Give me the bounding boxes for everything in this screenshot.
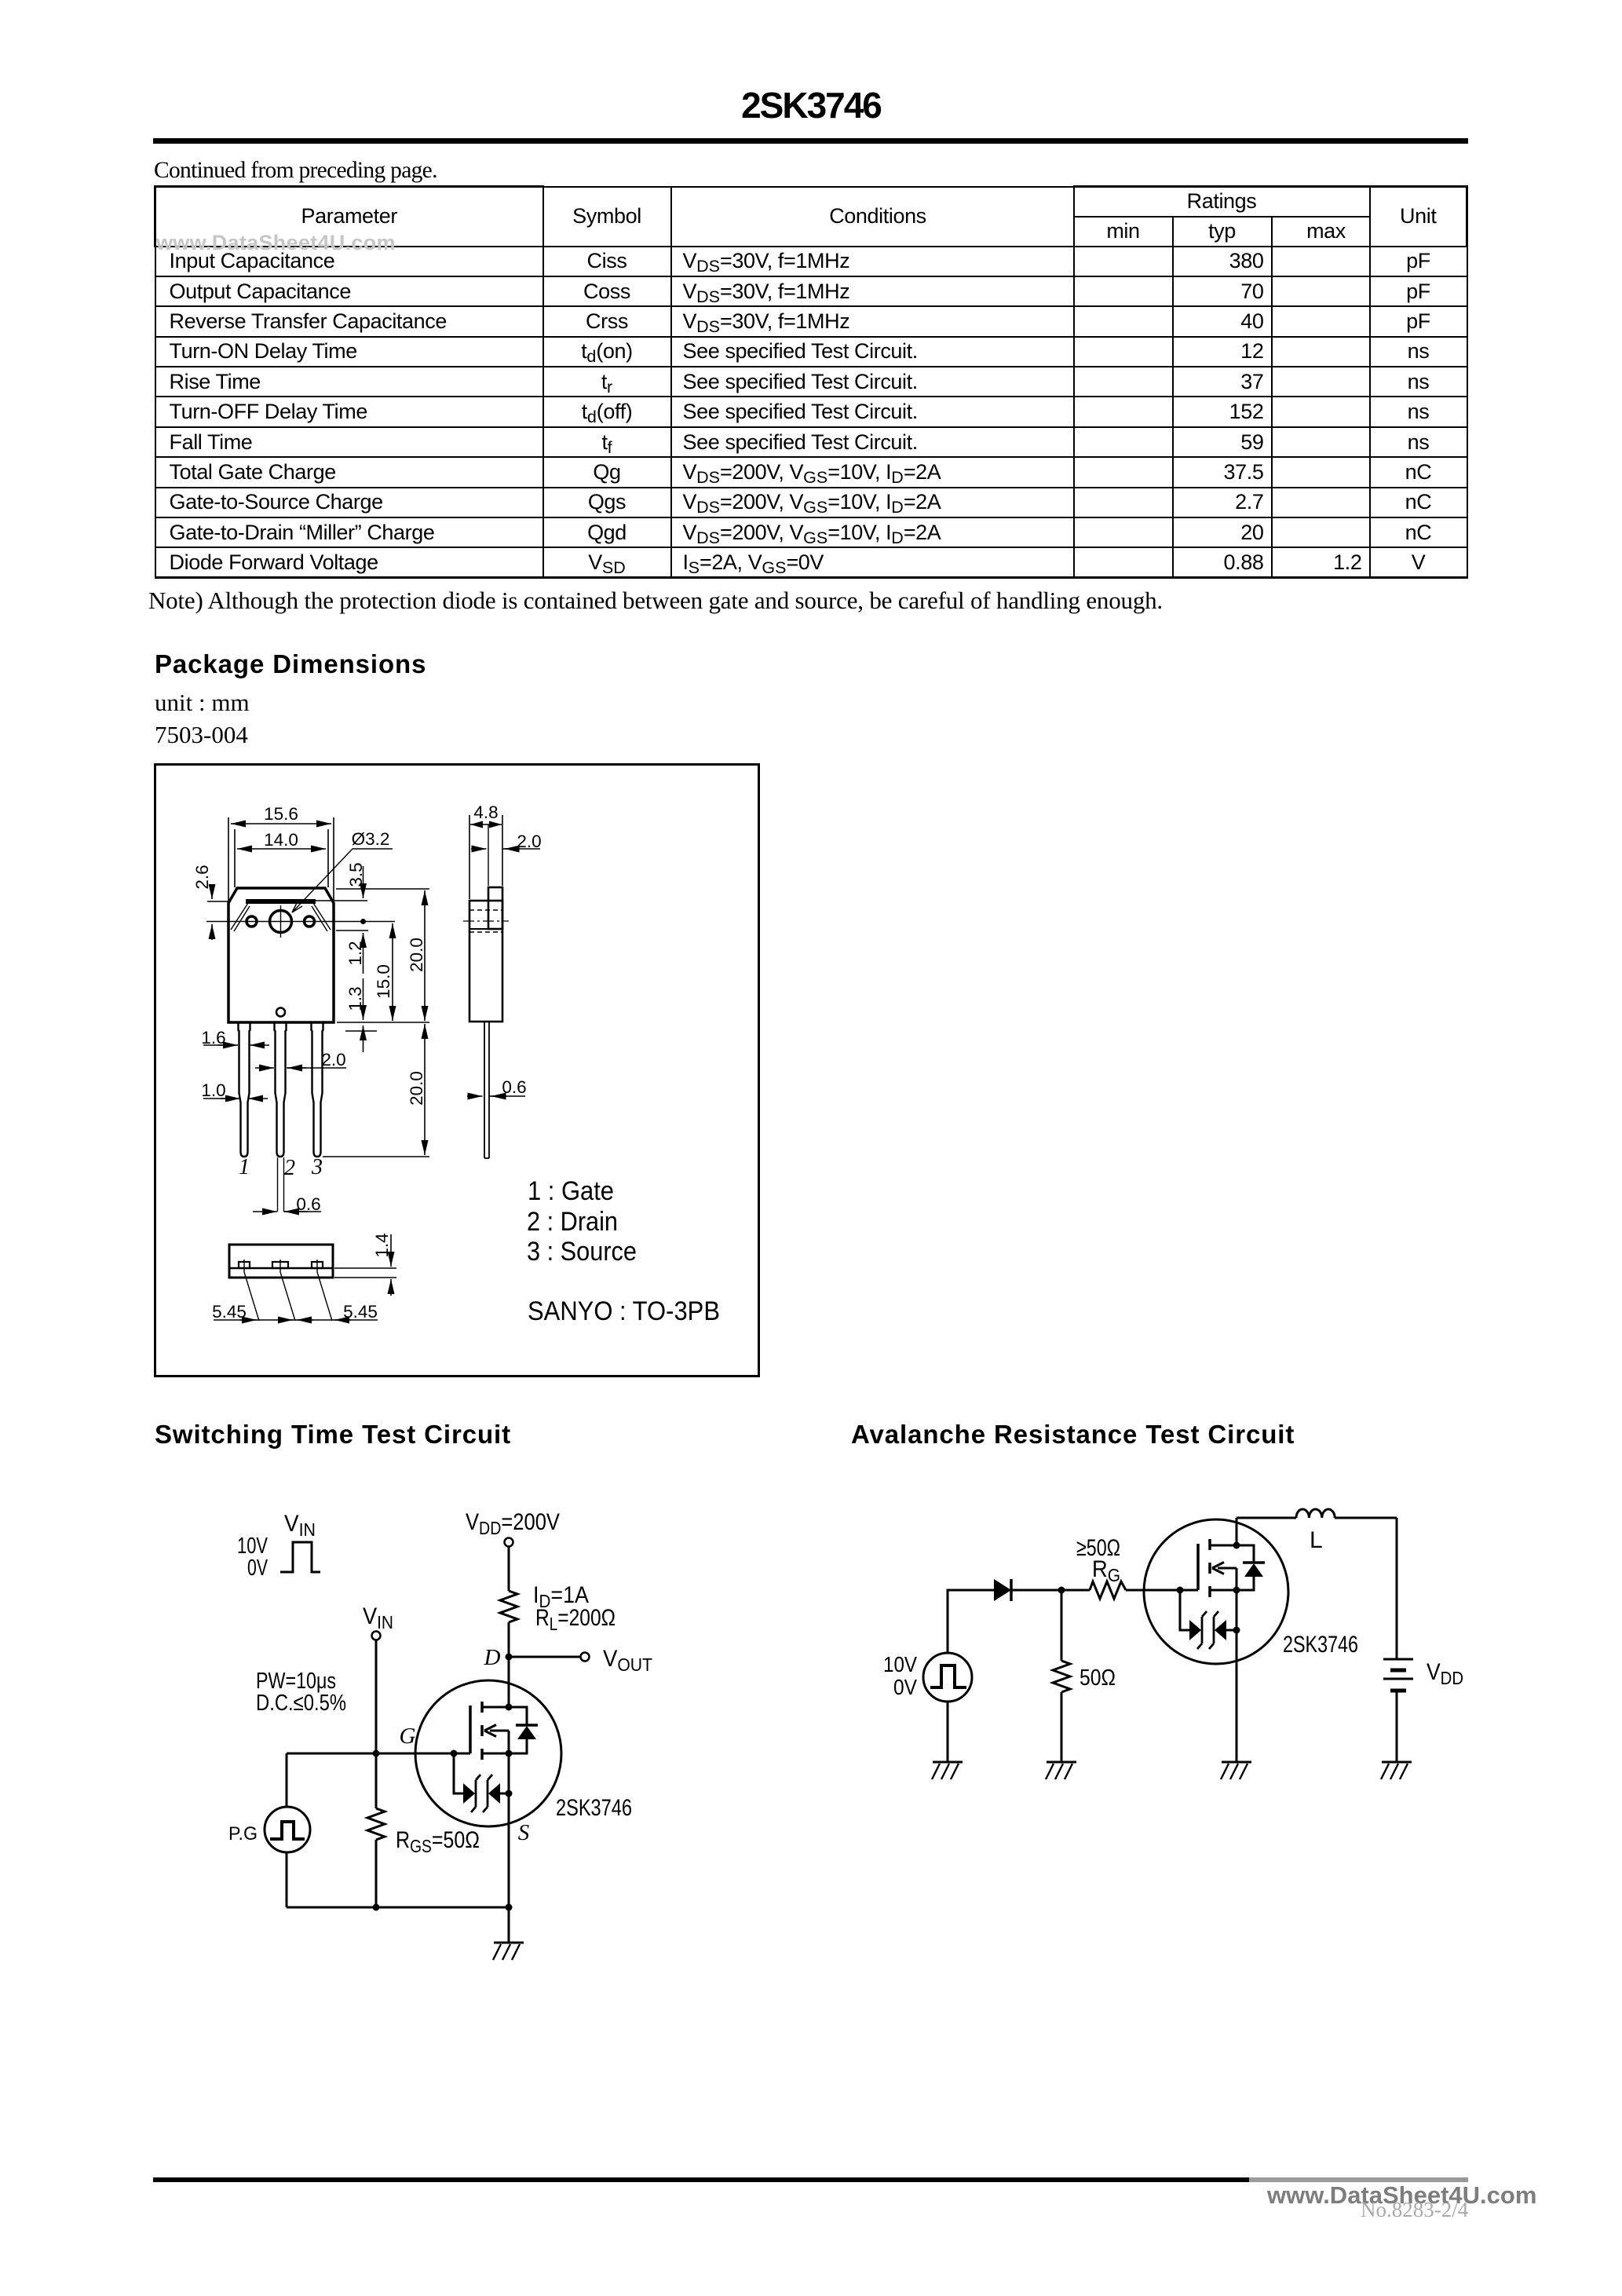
body diode: [509, 1707, 527, 1753]
source wire to ground: [1236, 1590, 1238, 1762]
top rail with inductor: [1237, 1517, 1296, 1519]
bottom view pin 3: [312, 1262, 323, 1268]
svg-text:VIN: VIN: [284, 1511, 316, 1540]
source stub: [482, 1753, 509, 1755]
pin end extension: [323, 1156, 429, 1157]
watermark top: [156, 231, 396, 255]
svg-text:1.4: 1.4: [372, 1233, 392, 1257]
TO-3PB front view body: [228, 888, 334, 1022]
svg-text:4.8: 4.8: [473, 803, 498, 822]
svg-text:2.0: 2.0: [517, 832, 541, 851]
dim 2.0 side: [488, 824, 489, 886]
title: [0, 84, 1622, 126]
bevel hatch left: [231, 903, 250, 931]
mounting hole: [270, 911, 292, 933]
wire source to diode: [948, 1590, 994, 1653]
drain stub: [482, 1706, 509, 1709]
body diode: [1237, 1545, 1254, 1590]
terminal VOUT: [581, 1653, 590, 1662]
resistor RL: [500, 1591, 517, 1622]
left branch wires: [286, 1753, 288, 1907]
svg-text:VDD=200V: VDD=200V: [466, 1509, 560, 1538]
svg-text:2.6: 2.6: [192, 865, 212, 889]
gate wire: [287, 1753, 470, 1755]
svg-text:VIN: VIN: [363, 1603, 393, 1632]
channel bar dashes: [480, 1702, 484, 1760]
svg-text:3.5: 3.5: [346, 862, 366, 887]
small hole right: [305, 916, 315, 927]
svg-text:2SK3746: 2SK3746: [1283, 1632, 1358, 1658]
dim 1.4: [334, 1268, 396, 1278]
svg-text:RGS=50Ω: RGS=50Ω: [396, 1827, 480, 1856]
svg-text:RL=200Ω: RL=200Ω: [535, 1605, 616, 1634]
body stub with arrow: [490, 1730, 509, 1732]
series diode: [994, 1579, 1011, 1601]
dim 2.6 arrows: [207, 901, 229, 902]
battery VDD: [1383, 1659, 1413, 1691]
VIN terminal: [372, 1632, 381, 1640]
pulse glyph: [930, 1665, 966, 1687]
svg-text:2: 2: [284, 1156, 295, 1180]
centerline through hole: [206, 921, 395, 923]
side pin: [484, 1022, 489, 1158]
package drawing: [0, 0, 1622, 1413]
small hole left: [247, 916, 257, 927]
resistor RG: [1090, 1581, 1126, 1599]
input pulse waveform: [280, 1542, 320, 1572]
svg-text:0V: 0V: [247, 1556, 268, 1581]
svg-text:20.0: 20.0: [407, 938, 426, 972]
dim 1.3: [363, 978, 364, 1020]
svg-text:0.6: 0.6: [502, 1077, 526, 1097]
dim 1.0 arrows: [203, 1098, 236, 1099]
svg-text:50Ω: 50Ω: [1080, 1665, 1116, 1691]
svg-text:S: S: [518, 1820, 530, 1845]
dim 14.0: [235, 829, 328, 887]
svg-text:3 : Source: 3 : Source: [527, 1237, 637, 1267]
leader line for hole dia: [292, 849, 393, 912]
node D: [506, 1654, 513, 1661]
svg-text:10V: 10V: [883, 1652, 917, 1676]
ground stem: [508, 1907, 510, 1943]
50 ohm branch: [1061, 1590, 1063, 1661]
svg-text:20.0: 20.0: [407, 1071, 426, 1106]
side dashed lines: [469, 910, 502, 932]
ground 4: [1381, 1762, 1412, 1779]
transistor circle: [1144, 1519, 1288, 1664]
pin 1: [239, 1022, 250, 1157]
pin shoulder tick: [345, 1030, 377, 1032]
wire RG to gate: [1126, 1589, 1198, 1592]
body bottom extension: [337, 1022, 429, 1023]
body stub: [1218, 1567, 1237, 1570]
dim 0.6 arrows front: [284, 1211, 322, 1212]
dim 3.5: [315, 900, 367, 901]
gate electrode: [1196, 1544, 1200, 1590]
bottom view pin 2: [272, 1262, 288, 1268]
svg-text:D: D: [484, 1645, 501, 1670]
package dimensions outer box: [155, 765, 759, 1377]
pin 2: [275, 1022, 287, 1157]
dim 4.8: [469, 815, 502, 899]
svg-text:SANYO : TO-3PB: SANYO : TO-3PB: [528, 1296, 720, 1326]
dim 15.6: [228, 817, 334, 902]
channel dashes: [1208, 1539, 1211, 1597]
protection diodes: [1180, 1590, 1189, 1630]
dim 20.0 lower: [424, 1024, 426, 1155]
ground 3: [1221, 1762, 1251, 1779]
svg-text:1.6: 1.6: [201, 1028, 225, 1047]
transistor 2SK3746 circle: [415, 1680, 561, 1826]
svg-text:5.45: 5.45: [343, 1302, 378, 1322]
footer number: [1361, 2198, 1468, 2222]
node dot on centerline: [360, 919, 366, 924]
svg-text:VDD: VDD: [1427, 1659, 1463, 1688]
top rule: [153, 138, 1468, 144]
svg-text:P.G: P.G: [228, 1823, 258, 1844]
side centerline: [463, 920, 509, 922]
dim 5.45 line: [214, 1319, 378, 1321]
heatsink tab edge: [246, 899, 316, 904]
bevel hatch right: [312, 903, 331, 931]
leader pins to 5.45 dim: [244, 1272, 332, 1321]
pin 2 tail extension: [278, 1157, 284, 1212]
continued text: [154, 158, 437, 184]
table: [154, 185, 1468, 579]
svg-text:0.6: 0.6: [296, 1194, 320, 1214]
top edge extension: [336, 888, 429, 890]
bottom view body: [229, 1245, 333, 1278]
bottom view pin 1: [239, 1262, 250, 1268]
svg-text:2SK3746: 2SK3746: [556, 1795, 632, 1821]
svg-text:1.2: 1.2: [345, 941, 365, 965]
wire to VOUT: [509, 1656, 580, 1658]
svg-text:2 : Drain: 2 : Drain: [527, 1207, 618, 1237]
dim 2.0 arrows: [287, 1067, 346, 1069]
svg-text:D.C.≤0.5%: D.C.≤0.5%: [256, 1691, 346, 1716]
circuits: [0, 1413, 1622, 2010]
pin 3: [312, 1022, 323, 1157]
footer site: [1267, 2181, 1536, 2210]
footer rule black: [153, 2177, 1249, 2182]
dim 20.0 upper: [424, 890, 426, 1021]
pulse source circle: [923, 1653, 972, 1702]
dim 15.0: [392, 923, 393, 1021]
svg-text:3: 3: [311, 1155, 323, 1179]
source wire down: [508, 1753, 510, 1907]
svg-text:15.6: 15.6: [264, 804, 298, 824]
bottom rail: [287, 1907, 509, 1909]
circuit headings: [155, 1420, 511, 1450]
svg-text:Ø3.2: Ø3.2: [352, 829, 390, 849]
resistor RGS: [367, 1808, 385, 1840]
drain stub: [1210, 1545, 1237, 1547]
wire VDD to RL: [508, 1547, 510, 1592]
svg-text:15.0: 15.0: [374, 964, 393, 999]
ground symbol: [493, 1943, 524, 1960]
svg-text:0V: 0V: [893, 1675, 917, 1699]
wire RL to drain: [508, 1622, 510, 1707]
svg-text:1.3: 1.3: [345, 986, 365, 1011]
gate electrode: [469, 1706, 472, 1753]
protection diodes branch: [454, 1753, 463, 1793]
svg-text:L: L: [1310, 1527, 1323, 1553]
dim 1.6 arrows: [203, 1044, 236, 1046]
dim 0.6 side: [467, 1095, 483, 1097]
VIN wire: [375, 1640, 378, 1809]
svg-text:1: 1: [239, 1155, 250, 1179]
package dimensions heading: [155, 649, 426, 679]
ground 1: [932, 1762, 963, 1779]
source stub: [1210, 1589, 1237, 1592]
dim 1.2 tick: [336, 930, 368, 931]
side view body: [469, 901, 502, 1022]
svg-text:5.45: 5.45: [212, 1302, 247, 1322]
ground 2: [1046, 1762, 1076, 1779]
P.G source circle: [265, 1807, 310, 1852]
terminal VDD: [505, 1538, 513, 1547]
note: [148, 587, 1163, 615]
svg-text:14.0: 14.0: [264, 830, 298, 850]
svg-text:VOUT: VOUT: [603, 1646, 652, 1675]
svg-text:1.0: 1.0: [201, 1080, 225, 1100]
wire source circle to ground: [947, 1702, 949, 1762]
svg-text:1 : Gate: 1 : Gate: [528, 1176, 614, 1206]
lower hole: [276, 1008, 285, 1017]
svg-text:G: G: [400, 1724, 416, 1749]
P.G pulse glyph: [270, 1822, 305, 1839]
side view tab: [488, 887, 502, 929]
svg-text:2.0: 2.0: [321, 1050, 345, 1069]
footer rule gray: [1249, 2177, 1468, 2182]
